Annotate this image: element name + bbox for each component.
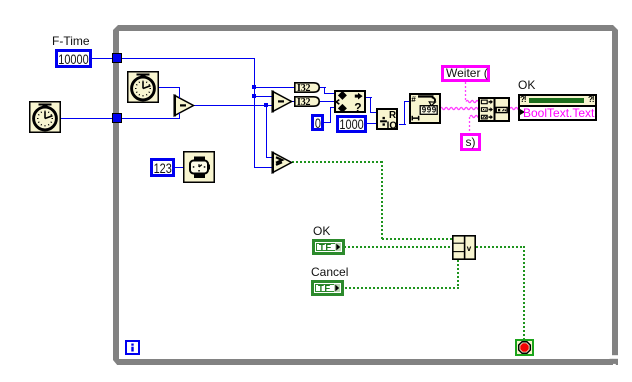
- svg-text:#: #: [411, 94, 416, 104]
- svg-text:R: R: [389, 110, 396, 121]
- svg-text:IQ: IQ: [387, 120, 398, 130]
- svg-text:TF: TF: [319, 243, 332, 254]
- svg-text:I32: I32: [297, 83, 310, 93]
- svg-text:v: v: [467, 244, 472, 253]
- svg-text:TF: TF: [318, 284, 331, 295]
- svg-text:I32: I32: [297, 97, 310, 107]
- svg-text:999: 999: [422, 106, 437, 115]
- svg-text:?: ?: [354, 101, 361, 114]
